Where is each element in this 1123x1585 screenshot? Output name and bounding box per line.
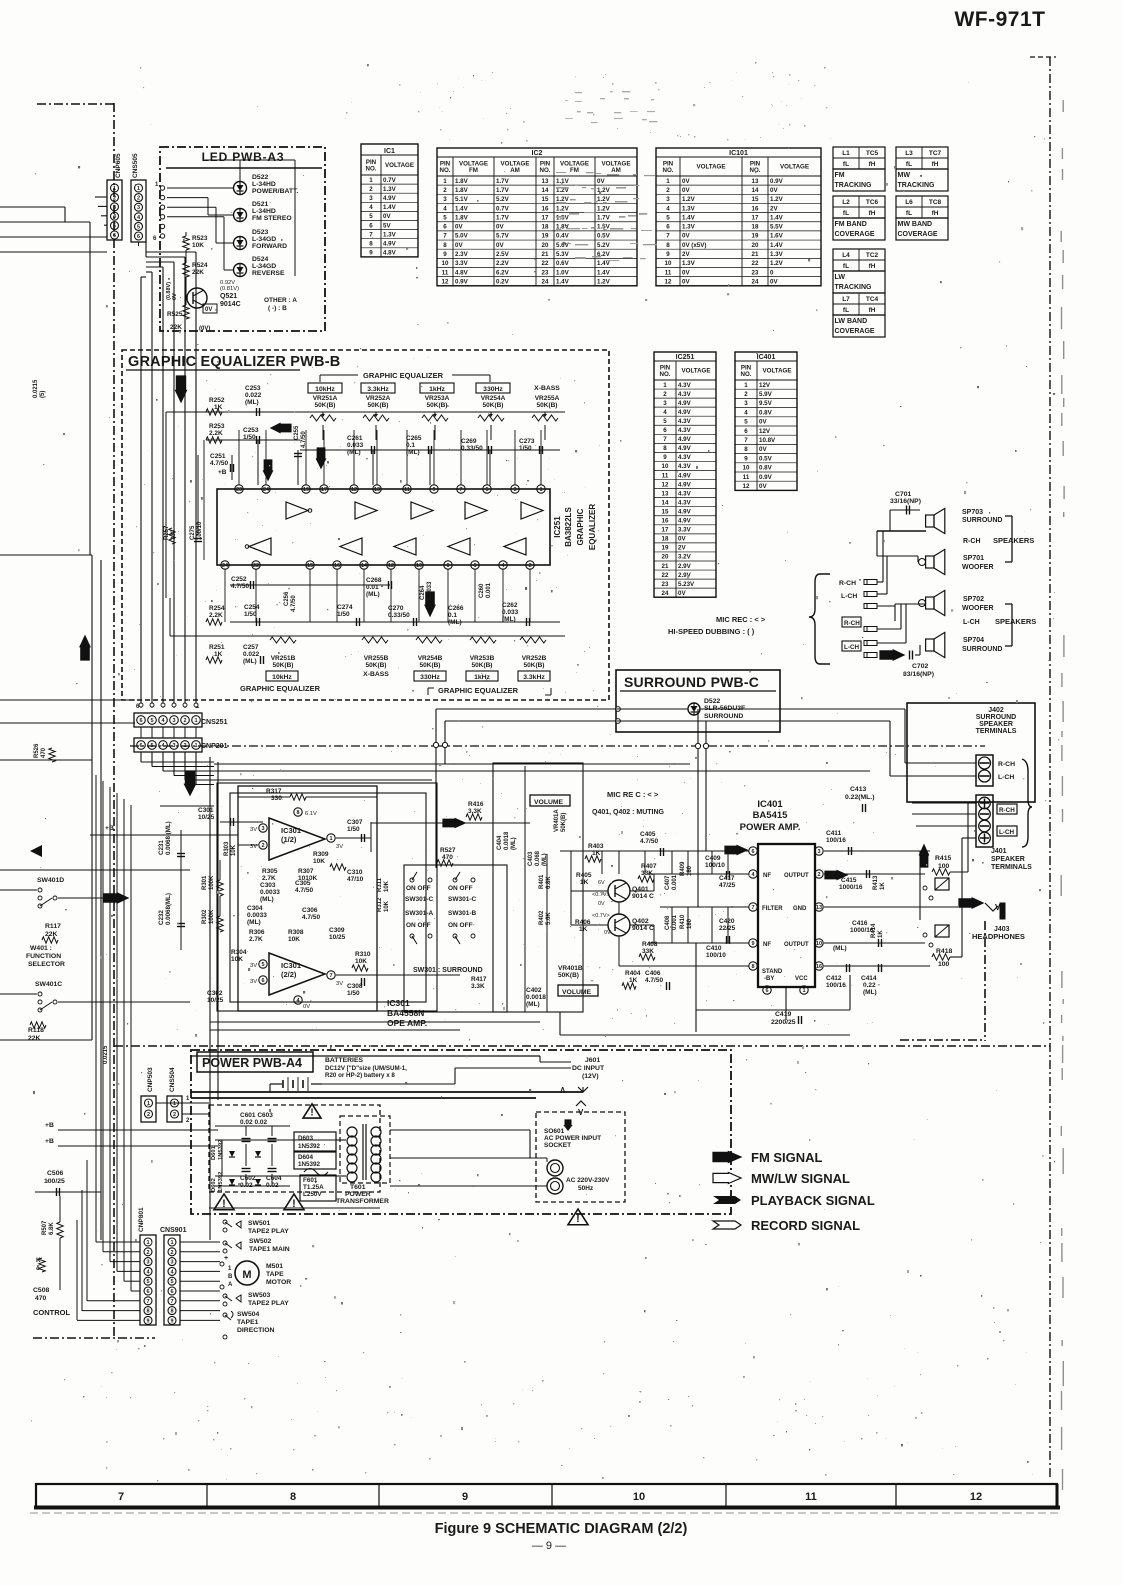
svg-text:11: 11: [665, 269, 672, 276]
svg-text:1: 1: [113, 186, 116, 192]
svg-text:1.5V: 1.5V: [556, 214, 570, 221]
svg-text:50K(B): 50K(B): [273, 662, 294, 669]
svg-text:C303: C303: [260, 882, 276, 889]
svg-text:VOLTAGE: VOLTAGE: [763, 368, 792, 375]
svg-text:MOTOR: MOTOR: [266, 1279, 291, 1286]
svg-text:6: 6: [137, 234, 140, 240]
svg-text:10: 10: [665, 260, 672, 267]
svg-text:R307: R307: [298, 868, 314, 875]
svg-text:VR254B: VR254B: [418, 655, 443, 662]
svg-text:POWER/BATT.: POWER/BATT.: [252, 188, 298, 195]
svg-text:TRACKING: TRACKING: [898, 182, 935, 189]
svg-text:D601: D601: [211, 1145, 217, 1160]
svg-text:C601 C603: C601 C603: [240, 1112, 273, 1119]
svg-text:5.23V: 5.23V: [678, 581, 695, 588]
svg-text:8: 8: [751, 964, 754, 970]
svg-text:C508: C508: [33, 1287, 49, 1294]
svg-text:7: 7: [170, 1299, 173, 1305]
svg-text:2.2V: 2.2V: [496, 260, 510, 267]
svg-text:SURROUND PWB-C: SURROUND PWB-C: [624, 674, 759, 690]
svg-text:fL: fL: [843, 263, 849, 270]
svg-text:4.9V: 4.9V: [678, 436, 692, 443]
svg-text:CONTROL: CONTROL: [33, 1308, 70, 1317]
svg-text:3V: 3V: [250, 979, 257, 985]
svg-text:DC INPUT: DC INPUT: [572, 1065, 605, 1072]
svg-text:VR401A: VR401A: [554, 809, 560, 832]
svg-text:4.9V: 4.9V: [678, 508, 692, 515]
svg-text:1: 1: [137, 186, 140, 192]
svg-text:50K(B): 50K(B): [524, 662, 545, 669]
svg-text:5: 5: [261, 962, 264, 968]
svg-text:NO.: NO.: [365, 165, 376, 172]
svg-text:SW401C: SW401C: [35, 981, 62, 988]
svg-text:0V: 0V: [682, 233, 690, 240]
svg-text:AC POWER INPUT: AC POWER INPUT: [544, 1135, 601, 1142]
svg-text:SPEAKER: SPEAKER: [979, 721, 1013, 728]
svg-text:!: !: [576, 1213, 580, 1225]
svg-text:(2/2): (2/2): [281, 970, 297, 979]
svg-text:L-CH: L-CH: [998, 774, 1014, 781]
svg-text:DIRECTION: DIRECTION: [237, 1327, 274, 1334]
svg-text:10/25: 10/25: [329, 934, 346, 941]
svg-text:19: 19: [752, 233, 759, 240]
svg-text:C274: C274: [337, 604, 353, 611]
svg-text:9: 9: [666, 251, 670, 258]
svg-text:1.8V: 1.8V: [455, 178, 469, 185]
svg-text:FM: FM: [570, 167, 579, 174]
svg-text:D523: D523: [252, 229, 268, 236]
svg-text:+B: +B: [45, 1138, 54, 1145]
svg-text:C407: C407: [665, 875, 671, 890]
svg-text:OPE AMP.: OPE AMP.: [387, 1018, 427, 1028]
svg-text:IC301: IC301: [281, 826, 301, 835]
svg-text:VOLTAGE: VOLTAGE: [697, 164, 726, 171]
svg-text:0V: 0V: [770, 187, 778, 194]
svg-text:MW/LW SIGNAL: MW/LW SIGNAL: [751, 1171, 850, 1186]
svg-text:W401 :: W401 :: [30, 945, 52, 952]
svg-text:( -) : B: ( -) : B: [268, 305, 287, 312]
svg-text:<0.7V>: <0.7V>: [592, 913, 610, 919]
svg-text:0V: 0V: [759, 483, 767, 490]
svg-text:OUTPUT: OUTPUT: [784, 873, 809, 879]
svg-text:4: 4: [666, 205, 670, 212]
svg-text:0V: 0V: [682, 178, 690, 185]
svg-text:12: 12: [662, 481, 669, 488]
svg-text:1: 1: [170, 1240, 173, 1246]
svg-text:Λ: Λ: [560, 1086, 566, 1095]
svg-text:1: 1: [173, 1101, 176, 1107]
svg-text:8: 8: [290, 1491, 296, 1503]
svg-text:100/16: 100/16: [826, 837, 846, 844]
svg-text:C251: C251: [210, 453, 226, 460]
svg-text:22: 22: [253, 563, 259, 569]
svg-text:POWER PWB-A4: POWER PWB-A4: [202, 1056, 302, 1070]
svg-text:IC401: IC401: [757, 354, 776, 361]
svg-text:33/16(NP): 33/16(NP): [890, 498, 921, 505]
svg-text:0.0018: 0.0018: [526, 994, 546, 1001]
svg-text:50K(B): 50K(B): [368, 402, 389, 409]
svg-text:1: 1: [666, 178, 670, 185]
svg-text:0.22(ML.): 0.22(ML.): [845, 794, 874, 801]
svg-text:3.3kHz: 3.3kHz: [523, 674, 545, 681]
svg-text:(ML): (ML): [511, 837, 517, 850]
svg-text:R405: R405: [576, 872, 592, 879]
svg-text:NO.: NO.: [659, 371, 670, 378]
svg-text:fH: fH: [932, 161, 939, 168]
svg-text:3.3kHz: 3.3kHz: [367, 386, 389, 393]
svg-text:R415: R415: [935, 855, 951, 862]
svg-text:VR255B: VR255B: [364, 655, 389, 662]
svg-text:MIC REC : < >: MIC REC : < >: [716, 615, 766, 624]
svg-text:NF: NF: [763, 942, 771, 948]
svg-text:R305: R305: [262, 868, 278, 875]
svg-text:6: 6: [765, 988, 768, 994]
svg-text:4.3V: 4.3V: [678, 463, 692, 470]
svg-text:0.022: 0.022: [245, 392, 262, 399]
svg-text:15: 15: [752, 196, 759, 203]
svg-text:TAPE1 MAIN: TAPE1 MAIN: [249, 1246, 290, 1253]
svg-text:NF: NF: [763, 873, 771, 879]
svg-text:GRAPHIC EQUALIZER: GRAPHIC EQUALIZER: [240, 684, 321, 693]
svg-text:10kHz: 10kHz: [315, 386, 335, 393]
svg-text:100/16: 100/16: [826, 982, 846, 989]
svg-text:0V: 0V: [678, 536, 686, 543]
svg-text:C257: C257: [243, 644, 259, 651]
svg-text:SW401D: SW401D: [37, 877, 64, 884]
svg-text:C701: C701: [895, 491, 911, 498]
svg-text:10K: 10K: [192, 242, 204, 249]
svg-text:9: 9: [744, 455, 748, 462]
svg-text:SW301 : SURROUND: SW301 : SURROUND: [413, 967, 483, 974]
svg-text:0.0068(ML): 0.0068(ML): [165, 893, 172, 925]
svg-text:SP703: SP703: [962, 509, 983, 516]
svg-text:1.7V: 1.7V: [496, 214, 510, 221]
svg-text:12: 12: [665, 278, 672, 285]
svg-text:3V: 3V: [336, 844, 343, 850]
svg-text:L6: L6: [905, 199, 913, 206]
svg-text:3.3V: 3.3V: [455, 260, 469, 267]
svg-text:4.3V: 4.3V: [678, 418, 692, 425]
svg-text:0.001: 0.001: [486, 582, 492, 598]
svg-text:L1: L1: [842, 150, 850, 157]
svg-text:CNS251: CNS251: [201, 719, 228, 726]
svg-text:1kHz: 1kHz: [429, 386, 445, 393]
svg-text:5: 5: [369, 213, 373, 220]
svg-text:(ML): (ML): [833, 945, 847, 952]
svg-text:4.7/50: 4.7/50: [640, 838, 658, 845]
svg-text:0.0068 (ML): 0.0068 (ML): [165, 821, 172, 855]
svg-text:SP701: SP701: [963, 555, 984, 562]
svg-text:C265: C265: [406, 435, 422, 442]
svg-text:6: 6: [139, 743, 142, 749]
svg-text:MW: MW: [898, 172, 911, 179]
svg-text:0.33/50: 0.33/50: [461, 445, 483, 452]
svg-text:2: 2: [528, 563, 531, 569]
svg-text:(ML): (ML): [366, 591, 380, 598]
svg-text:+: +: [224, 1255, 228, 1262]
svg-text:C264: C264: [420, 585, 426, 600]
svg-text:6: 6: [170, 1289, 173, 1295]
svg-text:BATTERIES: BATTERIES: [325, 1057, 363, 1064]
svg-text:IC301: IC301: [281, 961, 301, 970]
svg-text:(ML): (ML): [245, 399, 259, 406]
svg-text:R253: R253: [209, 423, 225, 430]
svg-text:3: 3: [443, 196, 447, 203]
svg-text:— 9 —: — 9 —: [532, 1540, 566, 1552]
svg-text:1.4V: 1.4V: [556, 278, 570, 285]
svg-text:3.2V: 3.2V: [678, 554, 692, 561]
svg-text:16: 16: [542, 205, 549, 212]
svg-text:47/25: 47/25: [719, 882, 736, 889]
svg-text:5.9V: 5.9V: [759, 391, 773, 398]
svg-text:VOLTAGE: VOLTAGE: [385, 162, 414, 169]
svg-text:R317: R317: [266, 788, 282, 795]
svg-text:3.3V: 3.3V: [678, 527, 692, 534]
svg-text:fH: fH: [869, 263, 876, 270]
svg-text:L-34HD: L-34HD: [252, 181, 276, 188]
svg-text:1K: 1K: [580, 879, 589, 886]
svg-text:R401: R401: [539, 874, 545, 889]
svg-text:4.7/50: 4.7/50: [210, 460, 228, 467]
svg-text:50K(B): 50K(B): [427, 402, 448, 409]
svg-text:GRAPHIC EQUALIZER: GRAPHIC EQUALIZER: [363, 371, 444, 380]
svg-text:C253: C253: [243, 427, 259, 434]
svg-text:1: 1: [443, 178, 447, 185]
svg-text:9: 9: [432, 487, 435, 493]
svg-text:1.3V: 1.3V: [682, 205, 696, 212]
svg-text:11: 11: [805, 1491, 817, 1503]
svg-text:1/50: 1/50: [347, 826, 360, 833]
svg-text:24: 24: [542, 278, 549, 285]
svg-text:0.5V: 0.5V: [597, 233, 611, 240]
svg-text:1N5392: 1N5392: [298, 1161, 321, 1168]
svg-text:13: 13: [662, 490, 669, 497]
svg-text:CNP503: CNP503: [147, 1067, 154, 1092]
svg-text:13: 13: [752, 178, 759, 185]
svg-text:3: 3: [744, 400, 748, 407]
svg-text:SW501: SW501: [248, 1220, 271, 1227]
svg-text:1000/16: 1000/16: [839, 884, 863, 891]
svg-text:FM: FM: [469, 167, 478, 174]
svg-text:fL: fL: [843, 210, 849, 217]
svg-text:SW301-A: SW301-A: [405, 910, 433, 917]
svg-text:POWER: POWER: [345, 1191, 371, 1198]
svg-text:15: 15: [307, 563, 313, 569]
svg-text:3: 3: [663, 400, 667, 407]
svg-text:L2: L2: [842, 199, 850, 206]
svg-text:IC101: IC101: [729, 150, 748, 157]
svg-text:R526: R526: [34, 743, 40, 758]
svg-text:3: 3: [666, 196, 670, 203]
svg-text:SW301-B: SW301-B: [448, 910, 476, 917]
svg-text:1: 1: [369, 177, 373, 184]
svg-text:COVERAGE: COVERAGE: [898, 231, 938, 238]
svg-text:2.7K: 2.7K: [249, 936, 263, 943]
svg-text:MW BAND: MW BAND: [898, 221, 933, 228]
svg-text:COVERAGE: COVERAGE: [835, 328, 875, 335]
svg-text:POWER AMP.: POWER AMP.: [740, 822, 801, 833]
svg-text:10K: 10K: [384, 900, 390, 912]
svg-text:9: 9: [369, 250, 373, 257]
svg-text:10K: 10K: [231, 956, 243, 963]
svg-text:8: 8: [369, 240, 373, 247]
svg-text:6: 6: [663, 427, 667, 434]
svg-text:8: 8: [170, 1309, 173, 1315]
svg-text:C417: C417: [719, 875, 735, 882]
svg-text:50K(B): 50K(B): [561, 813, 567, 832]
svg-text:11: 11: [404, 487, 410, 493]
svg-text:AC 220V-230V: AC 220V-230V: [566, 1177, 610, 1184]
svg-text:12: 12: [970, 1491, 982, 1503]
svg-text:1: 1: [744, 382, 748, 389]
svg-text:X-BASS: X-BASS: [534, 385, 560, 392]
svg-text:IC401: IC401: [757, 799, 783, 810]
svg-text:ON OFF: ON OFF: [406, 885, 431, 892]
svg-text:5.7V: 5.7V: [496, 233, 510, 240]
svg-text:LW: LW: [835, 274, 846, 281]
svg-text:1N5392: 1N5392: [218, 1172, 224, 1192]
svg-text:2: 2: [443, 187, 447, 194]
svg-text:10K: 10K: [384, 880, 390, 892]
svg-text:C402: C402: [526, 987, 542, 994]
svg-text:ON OFF: ON OFF: [448, 922, 473, 929]
svg-text:9: 9: [462, 1491, 468, 1503]
svg-text:-BY: -BY: [764, 976, 774, 982]
svg-text:D603: D603: [298, 1135, 314, 1142]
svg-text:GRAPHIC: GRAPHIC: [576, 508, 585, 545]
svg-text:C256: C256: [284, 591, 290, 606]
svg-text:L7: L7: [842, 296, 850, 303]
svg-text:D522: D522: [252, 174, 268, 181]
svg-text:L-34GD: L-34GD: [252, 236, 276, 243]
svg-text:1.4V: 1.4V: [597, 260, 611, 267]
svg-text:1.3V: 1.3V: [383, 231, 397, 238]
svg-text:BA3822LS: BA3822LS: [564, 507, 573, 547]
svg-text:fL: fL: [906, 161, 912, 168]
svg-text:0.5V: 0.5V: [759, 455, 773, 462]
svg-text:CNP801: CNP801: [138, 1207, 145, 1232]
svg-text:TC7: TC7: [929, 150, 942, 157]
svg-text:TERMINALS: TERMINALS: [991, 864, 1032, 871]
svg-text:AM: AM: [611, 167, 621, 174]
svg-text:2: 2: [369, 186, 373, 193]
svg-text:3: 3: [113, 205, 116, 211]
svg-text:6.1V: 6.1V: [305, 811, 317, 817]
svg-text:1.6V: 1.6V: [770, 233, 784, 240]
svg-text:IC1: IC1: [384, 148, 395, 155]
svg-text:1.4V: 1.4V: [597, 269, 611, 276]
svg-text:22/25: 22/25: [719, 925, 736, 932]
svg-text:AM: AM: [510, 167, 520, 174]
svg-text:8: 8: [296, 810, 299, 816]
svg-text:4.8V: 4.8V: [455, 269, 469, 276]
svg-text:T601: T601: [350, 1184, 366, 1191]
svg-text:0V: 0V: [604, 930, 611, 936]
svg-text:(ML): (ML): [260, 896, 274, 903]
svg-text:1.4V: 1.4V: [455, 205, 469, 212]
svg-text:4.9V: 4.9V: [383, 240, 397, 247]
svg-text:LED PWB-A3: LED PWB-A3: [202, 150, 285, 164]
svg-text:12V: 12V: [759, 428, 771, 435]
svg-text:SP704: SP704: [963, 637, 984, 644]
svg-text:R252: R252: [209, 397, 225, 404]
svg-text:1: 1: [194, 718, 197, 724]
svg-text:8: 8: [666, 242, 670, 249]
svg-text:2.2K: 2.2K: [209, 430, 223, 437]
svg-text:4.3V: 4.3V: [678, 454, 692, 461]
svg-text:10K: 10K: [313, 858, 325, 865]
svg-text:SURROUND: SURROUND: [704, 713, 743, 720]
svg-text:5.0V: 5.0V: [455, 233, 469, 240]
svg-text:50K(B): 50K(B): [483, 402, 504, 409]
svg-text:19: 19: [542, 233, 549, 240]
svg-text:(5): (5): [40, 391, 46, 398]
svg-text:1K: 1K: [629, 977, 638, 984]
svg-text:+B: +B: [45, 1122, 54, 1129]
svg-text:ON OFF: ON OFF: [406, 922, 431, 929]
svg-text:NO.: NO.: [439, 167, 450, 174]
svg-text:M: M: [242, 1269, 251, 1281]
svg-text:GRAPHIC EQUALIZER: GRAPHIC EQUALIZER: [438, 686, 519, 695]
svg-text:C307: C307: [347, 819, 363, 826]
svg-text:15: 15: [662, 508, 669, 515]
svg-text:VR252B: VR252B: [522, 655, 547, 662]
svg-text:330: 330: [271, 795, 282, 802]
svg-text:0.001: 0.001: [672, 914, 678, 930]
svg-text:2V: 2V: [678, 545, 686, 552]
svg-text:SPEAKER: SPEAKER: [991, 856, 1025, 863]
svg-text:0.0033: 0.0033: [427, 581, 433, 600]
svg-text:C266: C266: [448, 605, 464, 612]
svg-text:5: 5: [663, 418, 667, 425]
svg-text:J601: J601: [585, 1057, 600, 1064]
svg-text:0.033: 0.033: [502, 609, 519, 616]
svg-text:50K(B): 50K(B): [558, 972, 579, 979]
svg-text:10K: 10K: [231, 844, 237, 856]
svg-text:FM SIGNAL: FM SIGNAL: [751, 1150, 823, 1165]
svg-text:4: 4: [744, 409, 748, 416]
svg-text:10: 10: [633, 1491, 645, 1503]
svg-text:EQUALIZER: EQUALIZER: [588, 504, 597, 550]
svg-text:C301: C301: [198, 807, 214, 814]
svg-text:5.2V: 5.2V: [496, 196, 510, 203]
svg-text:17: 17: [662, 527, 669, 534]
svg-text:0V (x5V): 0V (x5V): [682, 242, 706, 249]
svg-text:50Hz: 50Hz: [578, 1185, 594, 1192]
svg-text:4.3V: 4.3V: [678, 427, 692, 434]
svg-text:R309: R309: [313, 851, 329, 858]
svg-text:19: 19: [303, 487, 309, 493]
svg-text:0.068: 0.068: [535, 850, 541, 866]
svg-text:C411: C411: [826, 830, 842, 837]
svg-text:6: 6: [113, 233, 116, 239]
svg-text:D522: D522: [704, 698, 720, 705]
svg-text:C309: C309: [329, 927, 345, 934]
svg-text:2: 2: [147, 1112, 150, 1118]
svg-text:0.9V: 0.9V: [455, 278, 469, 285]
svg-text:C415: C415: [841, 877, 857, 884]
svg-text:8: 8: [146, 1309, 149, 1315]
svg-text:2: 2: [817, 872, 820, 878]
svg-text:10kHz: 10kHz: [272, 674, 292, 681]
svg-text:R527: R527: [440, 847, 456, 854]
svg-text:5: 5: [485, 487, 488, 493]
svg-text:9: 9: [751, 941, 754, 947]
svg-text:16: 16: [662, 518, 669, 525]
svg-text:10/25: 10/25: [198, 814, 215, 821]
svg-text:0V: 0V: [770, 278, 778, 285]
svg-text:C302: C302: [207, 990, 223, 997]
